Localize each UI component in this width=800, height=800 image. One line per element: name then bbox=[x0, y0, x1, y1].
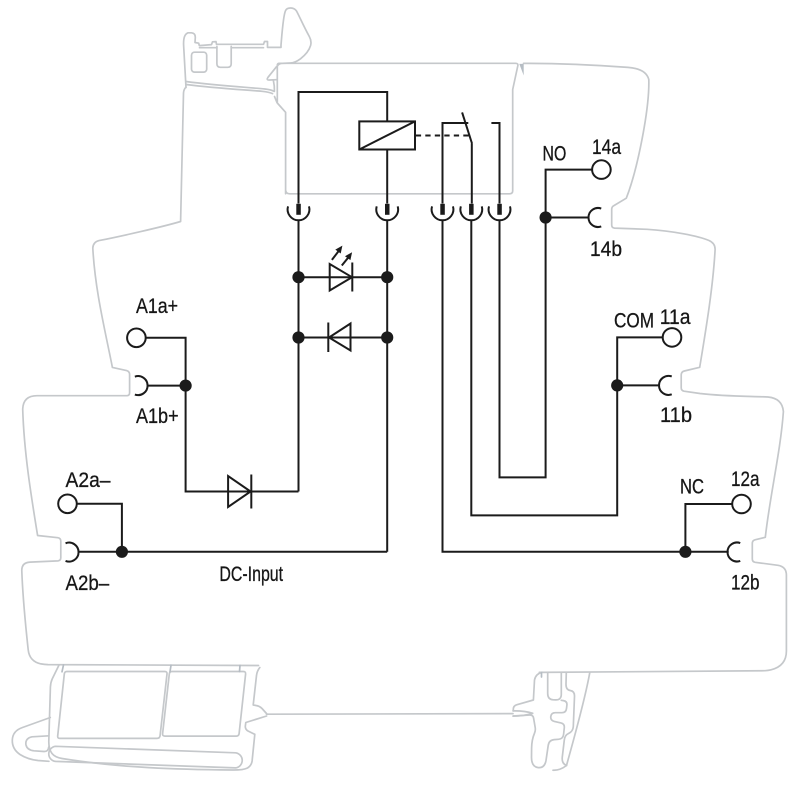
plug socket 5 arc bbox=[489, 206, 511, 220]
LED D1 cathode bar bbox=[351, 263, 353, 292]
freewheel diode D2 triangle bbox=[329, 324, 351, 351]
junction dot A2b bbox=[116, 546, 128, 558]
plug socket 1 pin bbox=[296, 204, 301, 215]
junction dot 12 bbox=[679, 546, 691, 558]
junction dot LED left bbox=[292, 271, 304, 283]
DIN clamp bar bottom edges bbox=[200, 47, 264, 49]
plug socket 2 arc bbox=[376, 206, 398, 220]
terminal 11b crescent bbox=[659, 376, 672, 395]
svg-text:A2b–: A2b– bbox=[66, 571, 110, 595]
wire right plug down to DC line bbox=[386, 220, 388, 552]
svg-text:14a: 14a bbox=[592, 135, 621, 159]
wire coil bottom bbox=[386, 150, 388, 204]
LED arrow 2 head bbox=[345, 252, 352, 260]
housing left section outline bbox=[22, 87, 259, 665]
housing right section outline bbox=[524, 63, 787, 672]
svg-text:COM: COM bbox=[614, 309, 654, 333]
LED arrow 2 bbox=[342, 258, 348, 266]
plug socket 1 arc bbox=[288, 206, 310, 220]
right foot inner slant bbox=[553, 672, 590, 770]
left foot claw inner bbox=[26, 736, 49, 752]
series diode D3 cathode bar bbox=[250, 475, 252, 509]
switch NO stub bbox=[491, 123, 499, 204]
left foot right upper edge bbox=[253, 668, 266, 714]
housing ledge double curve bbox=[186, 82, 274, 94]
LED arrow 1 head bbox=[335, 246, 342, 254]
12a wire bbox=[685, 504, 732, 552]
left foot window 2 bbox=[163, 672, 246, 737]
dashed actuation link bbox=[416, 135, 470, 137]
wire coil top loop bbox=[299, 92, 388, 204]
DIN clamp left hook bbox=[184, 8, 311, 88]
junction dot LED right bbox=[381, 271, 393, 283]
DC-Input line bbox=[122, 551, 387, 553]
terminal A1b crescent bbox=[135, 376, 148, 395]
right foot outer left edge bbox=[513, 672, 542, 711]
series diode D3 triangle bbox=[228, 476, 251, 507]
housing wedge under clamp bbox=[267, 67, 277, 103]
DIN clamp hanging tab bbox=[217, 46, 231, 67]
seam tick 2 bbox=[170, 665, 171, 672]
NO net: right contact to 14 bbox=[500, 218, 589, 478]
plug socket 3 pin bbox=[440, 204, 445, 215]
left foot claw bbox=[12, 718, 50, 762]
junction dot diode left bbox=[292, 331, 304, 343]
14a wire bbox=[546, 170, 593, 218]
A2 terminal wires bbox=[77, 504, 122, 552]
LED D1 triangle bbox=[330, 264, 352, 291]
plug socket 4 arc bbox=[460, 206, 482, 220]
seam wedge top right bbox=[519, 64, 523, 76]
terminal 14b crescent bbox=[589, 208, 602, 227]
terminal A2b crescent bbox=[66, 543, 79, 562]
DIN clamp square hole bbox=[192, 52, 207, 72]
left foot window 1 bbox=[58, 672, 167, 739]
relay coil K1 bbox=[359, 121, 415, 149]
freewheel diode D2 cathode bar bbox=[327, 323, 329, 353]
terminal 12a circle bbox=[732, 495, 751, 514]
terminal A2a circle bbox=[58, 495, 77, 514]
right foot lower lip and boot bbox=[513, 700, 567, 767]
junction dot 14 bbox=[540, 211, 552, 223]
plug socket 3 arc bbox=[432, 206, 454, 220]
relay module body outline bbox=[277, 63, 518, 194]
junction dot A1b bbox=[180, 380, 192, 392]
svg-text:A1a+: A1a+ bbox=[136, 294, 178, 318]
COM net: pole contact to 11 bbox=[471, 220, 659, 515]
svg-text:12b: 12b bbox=[731, 571, 760, 595]
terminal 12b crescent bbox=[728, 543, 741, 562]
seam tick 4 bbox=[541, 672, 543, 677]
svg-text:12a: 12a bbox=[731, 467, 760, 491]
svg-text:11a: 11a bbox=[660, 305, 691, 329]
seam tick 1 bbox=[62, 665, 64, 672]
LED branch wire bbox=[299, 276, 388, 278]
right foot channel outer bbox=[562, 672, 574, 765]
A2b stub wire bbox=[78, 551, 122, 553]
svg-text:14b: 14b bbox=[590, 237, 622, 261]
terminal 14a circle bbox=[592, 160, 611, 179]
right foot center bar bbox=[548, 672, 562, 700]
DIN rail tip lower bbox=[513, 713, 533, 716]
svg-text:DC-Input: DC-Input bbox=[219, 562, 283, 586]
plug socket 2 pin bbox=[385, 204, 390, 215]
left foot outer bbox=[49, 665, 267, 770]
junction dot diode right bbox=[381, 331, 393, 343]
DIN rail line bbox=[267, 713, 514, 716]
junction dot 11 bbox=[611, 379, 623, 391]
coil diagonal bbox=[359, 121, 415, 149]
left foot slot bbox=[49, 746, 242, 768]
NC net: left contact to 12 bbox=[443, 220, 729, 552]
switch blade bbox=[462, 112, 472, 143]
A1b stub wire bbox=[147, 385, 185, 387]
wire left plug down bbox=[298, 220, 300, 491]
switch NC bar bbox=[443, 123, 469, 204]
svg-text:A1b+: A1b+ bbox=[136, 404, 179, 428]
A1 terminal wires bbox=[146, 338, 299, 492]
terminal A1a circle bbox=[127, 329, 146, 348]
freewheel diode branch wire bbox=[299, 337, 388, 339]
svg-text:NC: NC bbox=[680, 475, 704, 499]
svg-text:A2a–: A2a– bbox=[66, 468, 111, 492]
LED arrow 1 bbox=[332, 251, 339, 260]
svg-text:NO: NO bbox=[543, 142, 567, 166]
switch pole wire bbox=[471, 144, 473, 204]
DIN rail tip upper bbox=[513, 711, 533, 713]
11a wire bbox=[617, 337, 663, 385]
terminal 11a circle bbox=[663, 328, 682, 347]
seam tick 3 bbox=[239, 665, 242, 671]
svg-text:11b: 11b bbox=[660, 403, 692, 427]
plug socket 4 pin bbox=[469, 204, 474, 215]
plug socket 5 pin bbox=[497, 204, 502, 215]
